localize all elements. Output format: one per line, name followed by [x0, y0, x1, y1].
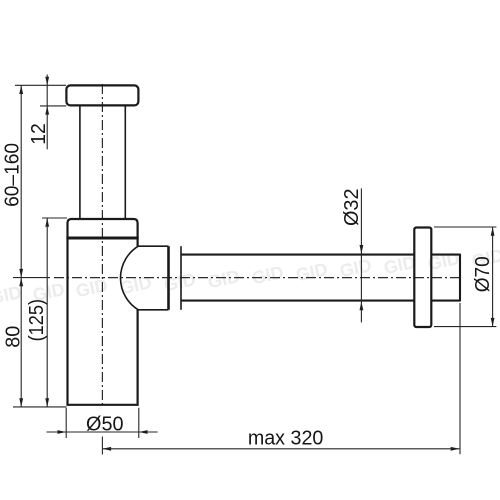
svg-text:60–160: 60–160	[2, 143, 24, 207]
svg-text:Ø50: Ø50	[86, 413, 124, 435]
svg-text:Ø70: Ø70	[472, 256, 494, 292]
svg-text:Ø32: Ø32	[341, 189, 363, 227]
svg-text:max 320: max 320	[248, 428, 324, 450]
svg-text:80: 80	[2, 326, 24, 348]
svg-text:(125): (125)	[26, 299, 48, 342]
svg-text:12: 12	[28, 123, 50, 145]
